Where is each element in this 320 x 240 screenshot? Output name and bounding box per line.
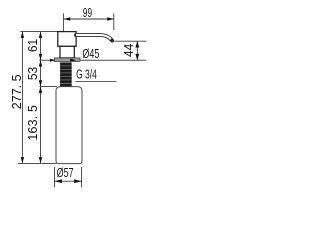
bottom datum line <box>18 162 57 164</box>
thread ridges <box>60 66 71 84</box>
dimension Ø57 right arrow <box>74 179 81 183</box>
dimension Ø57 extension line right <box>81 167 83 187</box>
dimension 61 bottom arrow <box>39 54 42 60</box>
svg-text:Ø57: Ø57 <box>57 167 74 181</box>
extension line pump axis <box>62 13 64 31</box>
bottle <box>56 87 82 164</box>
dimension 61/53/163.5 line <box>40 32 42 164</box>
svg-text:99: 99 <box>83 6 92 20</box>
dimension 61 top arrow <box>39 32 42 38</box>
svg-text:163. 5: 163. 5 <box>26 105 40 141</box>
dimension 53 top arrow <box>39 60 42 66</box>
dimension 44 bottom arrow <box>135 54 139 60</box>
dimension 44 extension line top <box>115 40 147 42</box>
extension line spout tip <box>113 13 115 30</box>
flange Ø45 <box>54 58 80 62</box>
dimension 44 top arrow <box>135 41 139 47</box>
dimension 99 line <box>64 18 114 20</box>
top datum line <box>20 31 58 33</box>
spout bore <box>76 35 111 39</box>
dimension 99 right arrow <box>107 17 113 20</box>
dimension 277.5 line <box>21 32 23 164</box>
svg-text:44: 44 <box>122 44 136 57</box>
dimension 277.5 bottom arrow <box>21 157 24 163</box>
deck datum line <box>39 59 146 61</box>
label G 3/4 underline <box>75 80 116 82</box>
dimension 44 line <box>136 41 138 60</box>
dimension Ø45 left arrow <box>50 59 55 62</box>
svg-text:G 3/4: G 3/4 <box>76 68 97 82</box>
spout <box>76 35 112 41</box>
neck <box>60 46 74 58</box>
threaded shaft G3/4 <box>60 62 72 87</box>
svg-text:61: 61 <box>26 39 40 52</box>
dimension 277.5 top arrow <box>21 32 24 38</box>
dimension Ø57 extension line left <box>54 167 56 187</box>
svg-text:277. 5: 277. 5 <box>10 74 24 109</box>
svg-text:Ø45: Ø45 <box>82 48 99 62</box>
dimension Ø45 right arrow <box>70 59 76 62</box>
dimension 99 left arrow <box>64 17 70 20</box>
dimension 53 bottom arrow <box>39 80 42 86</box>
bottle-top datum line <box>40 86 58 88</box>
dimension 163.5 top arrow <box>39 87 42 93</box>
svg-text:53: 53 <box>26 67 40 80</box>
dimension Ø57 line <box>55 180 82 182</box>
dimension Ø57 left arrow <box>55 179 62 183</box>
pump head cap <box>58 32 76 47</box>
dimension 163.5 bottom arrow <box>39 157 42 163</box>
